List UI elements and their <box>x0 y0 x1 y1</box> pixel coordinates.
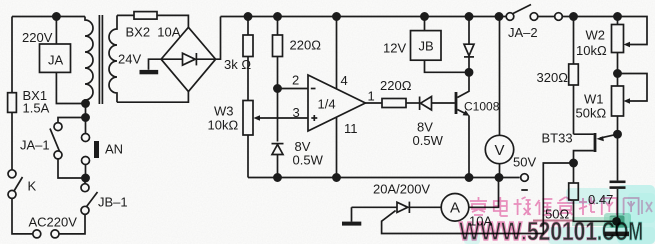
switch K <box>8 170 16 178</box>
resistor 50Ohm <box>569 183 579 200</box>
wire K to AC terminal <box>12 198 33 234</box>
op-amp U1 1/4 <box>308 75 365 131</box>
wire AN bottom to node <box>85 165 87 179</box>
watermark cyan background patches <box>464 185 655 244</box>
node top bus voltmeter <box>495 13 502 20</box>
wire left mains rail upper <box>11 17 13 93</box>
svg-text:BX2 10A: BX2 10A <box>126 25 181 40</box>
transformer T1 primary winding <box>85 17 93 104</box>
resistor 220Ohm output <box>382 99 406 108</box>
svg-text:1/4: 1/4 <box>318 97 336 112</box>
relay coil JB box 12V <box>411 31 442 61</box>
watermark chinese characters row <box>470 197 652 216</box>
node bus zener <box>274 174 281 181</box>
node top bus 320 <box>570 13 577 20</box>
wire voltmeter to bottom bus <box>499 164 501 178</box>
svg-text:3: 3 <box>293 105 300 120</box>
svg-text:JA–2: JA–2 <box>508 25 538 40</box>
diode freewheel JB <box>468 17 470 45</box>
transformer T1 core <box>98 15 100 104</box>
zener diode 8V 0.5W left <box>272 143 284 145</box>
svg-text:JB–1: JB–1 <box>98 195 128 210</box>
svg-text:K: K <box>28 179 37 194</box>
node bus pin11 <box>333 174 340 181</box>
wire bus to voltmeter <box>499 17 501 136</box>
W3 wiper arrow <box>254 115 261 121</box>
svg-text:50kΩ: 50kΩ <box>576 106 607 121</box>
wire bridge output to top bus <box>216 17 221 60</box>
wire cap to node <box>617 189 619 221</box>
SCR 20A/200V <box>397 202 408 212</box>
wire bus to 3k resistor <box>247 17 249 36</box>
resistor 220Ohm upper <box>273 35 283 57</box>
svg-text:C1008: C1008 <box>464 100 500 114</box>
svg-text:12V: 12V <box>383 41 406 56</box>
wire JA-1 top to node <box>58 118 86 123</box>
wire AC terminal to JB-1 <box>59 214 85 234</box>
wire secondary top to fuse <box>117 14 134 16</box>
svg-text:2: 2 <box>292 73 299 88</box>
wire node to JA-1 bottom <box>58 159 86 178</box>
wire node to ground <box>616 221 618 231</box>
wire JB coil to collector node <box>425 60 470 72</box>
svg-text:A: A <box>450 200 460 217</box>
wire pin3 to W3 wiper <box>256 117 308 119</box>
capacitor C1 0.47 <box>610 181 626 184</box>
svg-text:AN: AN <box>105 142 123 157</box>
svg-text:320Ω: 320Ω <box>537 70 569 85</box>
svg-text:10kΩ: 10kΩ <box>576 43 607 58</box>
svg-text:W1: W1 <box>584 92 604 107</box>
svg-text:220Ω: 220Ω <box>380 78 412 93</box>
wire ammeter to bus <box>469 181 499 207</box>
wire primary bottom pair <box>85 104 87 118</box>
wire left mains rail top <box>12 16 85 18</box>
node primary-bottom split <box>82 114 89 121</box>
svg-text:0.5W: 0.5W <box>293 153 324 168</box>
output terminal minus <box>521 174 529 182</box>
terminal circle JA-2 right <box>555 13 563 21</box>
watermark green tint over wires <box>572 213 631 228</box>
bridge inner diode <box>161 58 182 60</box>
svg-text:WWW.: WWW. <box>459 216 527 244</box>
wire top bus <box>221 16 507 18</box>
wire pin11 to bottom bus <box>336 117 338 177</box>
wire bus to 320 resistor <box>573 17 575 65</box>
svg-text:W2: W2 <box>586 28 606 43</box>
svg-text:11: 11 <box>344 121 358 136</box>
wire JA-2 link <box>538 16 555 18</box>
svg-text:220Ω: 220Ω <box>290 38 322 53</box>
op-amp minus sign <box>311 88 316 90</box>
UJT BT33 emitter <box>600 134 618 138</box>
node bus emitter <box>465 174 472 181</box>
svg-text:1.5A: 1.5A <box>23 101 50 116</box>
svg-text:220V: 220V <box>22 30 53 45</box>
node top bus W2 <box>614 13 621 20</box>
potentiometer W1 50k body <box>612 86 624 116</box>
UJT BT33 base1 lead <box>574 151 594 163</box>
op-amp plus sign <box>311 117 317 119</box>
UJT BT33 bar <box>594 133 597 152</box>
wire pin4 to top bus <box>336 17 338 90</box>
svg-text:10kΩ: 10kΩ <box>208 118 239 133</box>
svg-text:520101: 520101 <box>527 216 597 244</box>
wire 220 to pin2 node <box>277 57 279 89</box>
svg-text:50V: 50V <box>513 155 536 170</box>
fuse BX1 1.5A <box>8 93 17 113</box>
AC220V terminal right <box>51 230 59 238</box>
W2 wiper arrow <box>624 42 631 48</box>
wire top bus right <box>562 17 647 45</box>
node collector <box>465 69 472 76</box>
svg-text:1: 1 <box>368 89 375 104</box>
ground at bridge <box>149 59 162 70</box>
pushbutton AN contacts <box>82 134 90 142</box>
wire JA coil bottom <box>56 72 85 103</box>
svg-text:JA–1: JA–1 <box>20 138 50 153</box>
svg-text:AC220V: AC220V <box>29 215 78 230</box>
potentiometer W2 10k body <box>612 25 624 53</box>
wire 3k to W3 <box>247 57 249 101</box>
wire bus to W2 <box>617 17 619 25</box>
zener diode 8V 0.5W series <box>419 97 421 111</box>
svg-text:24V: 24V <box>118 52 141 67</box>
node W2 W1 <box>614 70 621 77</box>
wire 50 resistor to cap node <box>574 200 617 221</box>
svg-text:JB: JB <box>419 39 434 54</box>
transformer T1 secondary winding <box>109 15 117 102</box>
wire W1 wiper loop <box>618 74 648 102</box>
wire bottom bus <box>248 177 520 179</box>
svg-text:BT33: BT33 <box>542 131 573 146</box>
pushbutton AN actuator bar <box>94 141 99 158</box>
node top bus pin4 <box>333 13 340 20</box>
node B1 <box>570 159 577 166</box>
wire secondary bottom to bridge <box>117 92 188 103</box>
watermark www text <box>459 216 643 244</box>
watermark red streak <box>533 220 573 222</box>
svg-text:3k Ω: 3k Ω <box>224 57 251 72</box>
UJT BT33 base2 lead <box>574 133 594 135</box>
wire bus to JB coil <box>424 17 426 31</box>
SCR gate wire <box>382 163 570 234</box>
node emitter timing <box>614 131 621 138</box>
AC220V terminal left <box>33 230 41 238</box>
wire pin2 <box>278 88 309 90</box>
node transformer primary bottom <box>82 100 89 107</box>
W1 wiper arrow <box>624 98 631 104</box>
wire left rail to switch K <box>11 112 13 169</box>
transistor Q1 C1008 <box>455 92 458 114</box>
svg-text:0.5W: 0.5W <box>413 133 444 148</box>
relay contact JA-2 <box>506 13 514 21</box>
resistor 3kOhm <box>243 35 253 57</box>
node top bus 3k <box>244 13 251 20</box>
wire W1 bottom to emitter node <box>617 116 619 134</box>
node pin2 reference <box>274 85 281 92</box>
svg-text:20A/200V: 20A/200V <box>373 182 430 197</box>
wire W3 bottom to bus <box>247 135 249 178</box>
wire zener2 to base <box>432 102 455 104</box>
svg-text:W3: W3 <box>214 104 234 119</box>
node cap bottom <box>613 218 620 225</box>
wire fuse to bridge top <box>157 15 188 27</box>
node JB-1/JA-1/AN junction <box>82 174 89 181</box>
svg-text:.COM: .COM <box>597 216 643 244</box>
wire node to AN <box>85 118 87 134</box>
switch JB-1 <box>81 206 89 214</box>
wire 320 to B2 <box>573 85 575 134</box>
bridge rectifier diamond <box>161 27 216 91</box>
wire bus to 220 resistor <box>277 17 279 36</box>
node bus voltmeter <box>495 174 502 181</box>
ground at SCR anode <box>342 222 361 226</box>
wire W1 to node <box>617 74 619 87</box>
node top bus JB <box>421 13 428 20</box>
ammeter A 10A <box>441 194 469 222</box>
wire JA coil top <box>55 17 57 45</box>
wire B1 to 50 resistor <box>573 163 575 183</box>
ground at trigger <box>605 232 630 237</box>
resistor 320Ohm <box>569 64 579 85</box>
minus mark <box>521 189 528 191</box>
wire zener to bottom bus <box>277 155 279 178</box>
wire 220 to zener2 <box>406 102 419 104</box>
potentiometer W3 10k body <box>243 101 253 136</box>
wire op-amp output <box>365 102 382 104</box>
wire emitter node to cap <box>617 134 619 180</box>
node top bus diode <box>465 13 472 20</box>
node top bus 220 <box>274 13 281 20</box>
voltmeter V 50V <box>485 135 513 163</box>
svg-text:JA: JA <box>48 53 64 68</box>
svg-text:V: V <box>495 142 505 159</box>
relay coil JA box <box>40 44 71 72</box>
wire JB-1 to node <box>84 178 86 184</box>
wire SCR cathode to ammeter <box>409 206 441 208</box>
relay contact JA-1 <box>54 151 62 159</box>
fuse BX2 10A <box>134 12 157 20</box>
wire pin2 node to zener <box>277 89 279 142</box>
svg-text:4: 4 <box>341 73 348 88</box>
node JA top <box>53 13 60 20</box>
wire W2 bottom to node <box>617 53 619 74</box>
